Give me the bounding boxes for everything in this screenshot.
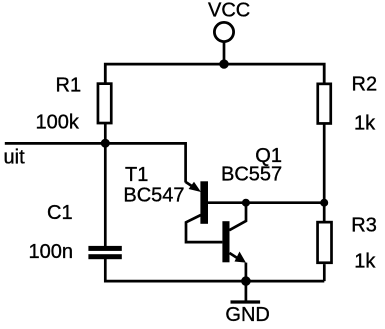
svg-text:BC557: BC557 [221, 164, 282, 186]
wire VCC stub [223, 42, 226, 64]
resistor R1 [98, 84, 111, 123]
svg-text:R1: R1 [56, 75, 82, 97]
ground bar [231, 300, 261, 303]
wire R2 bottom [323, 123, 326, 203]
VCC terminal circle [214, 22, 233, 41]
wire T1 emitter to Q1 base [186, 215, 222, 242]
transistor Q1 base bar [222, 221, 229, 262]
svg-text:T1: T1 [125, 164, 148, 186]
svg-text:1k: 1k [354, 112, 376, 134]
svg-text:GND: GND [225, 304, 269, 326]
transistor T1 arrow lead [186, 182, 193, 187]
wire T1 collector line to R2/R3 [208, 201, 325, 204]
resistor R2 [318, 84, 331, 124]
wire C1 bottom and bottom rail [105, 259, 324, 282]
junction GND dot [241, 276, 251, 286]
svg-text:uit: uit [4, 147, 26, 169]
svg-text:C1: C1 [47, 202, 73, 224]
svg-text:BC547: BC547 [123, 185, 184, 207]
wire uit to C1 [104, 143, 107, 246]
svg-text:R2: R2 [352, 74, 378, 96]
junction VCC dot [219, 59, 228, 68]
svg-text:100k: 100k [36, 111, 80, 133]
wire R3 top [323, 203, 326, 223]
wire R3 bottom [323, 264, 326, 281]
svg-text:1k: 1k [354, 251, 376, 273]
capacitor C1 top plate [88, 246, 121, 251]
wire GND stub [245, 281, 248, 302]
junction dot mid [242, 199, 250, 207]
svg-text:100n: 100n [29, 241, 74, 263]
wire R1 bottom [104, 123, 107, 143]
svg-text:VCC: VCC [208, 0, 250, 22]
resistor R3 [318, 222, 332, 263]
wire Q1 collector lead [229, 203, 246, 231]
junction dot R2/R3 [320, 199, 328, 207]
svg-text:R3: R3 [351, 215, 377, 237]
junction uit dot [101, 139, 110, 148]
capacitor C1 bottom plate [88, 254, 121, 259]
wire uit line and T1 base drop [5, 143, 186, 182]
wire top rail [105, 64, 324, 84]
transistor T1 base bar [200, 181, 208, 224]
wire Q1 emitter lead [230, 253, 239, 259]
